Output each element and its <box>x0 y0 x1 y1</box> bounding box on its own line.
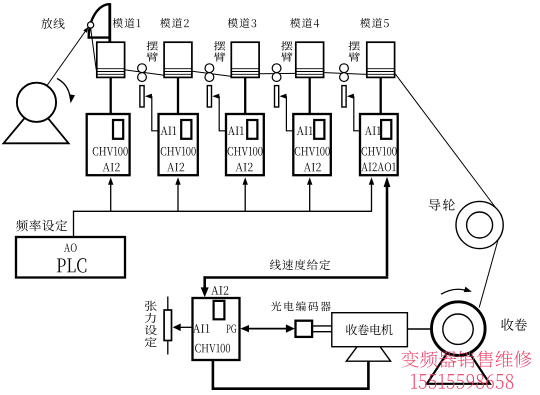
take-up inverter box <box>193 298 240 360</box>
wire AI1 to pot <box>177 326 193 328</box>
swing arm 3 pulleys <box>272 64 281 73</box>
wire swing arm 2 to AI1 <box>219 96 226 131</box>
tension pot stem <box>167 297 169 355</box>
pay-off rotation arrow <box>57 79 70 96</box>
wire PLC to bus <box>73 211 75 237</box>
AI1 label U4 <box>297 127 313 135</box>
die drum 4 <box>296 42 324 77</box>
wire U5 AO1 line-speed reference <box>386 186 389 276</box>
swing arm 4 arrow to bar <box>349 95 354 97</box>
模道5 label <box>360 18 389 28</box>
wire swing arm 1 to AI1 <box>152 96 159 131</box>
AI2 label takeup <box>211 286 228 295</box>
模道4 label <box>290 18 319 28</box>
take-up rotation arrow <box>441 289 465 294</box>
wire swing arm 3 to AI1 <box>286 96 293 131</box>
AI2AO1 label U5 <box>361 163 396 172</box>
收卷电机 label <box>346 324 393 335</box>
pay-off stand triangle <box>4 104 69 143</box>
模道2 label <box>160 18 189 28</box>
CHV100 label U3 <box>228 147 263 156</box>
CHV100 label U4 <box>295 147 330 156</box>
guide D-shape arc <box>89 4 110 37</box>
die drum 5 <box>367 42 395 77</box>
swing arm 3 sensor bar <box>275 86 279 107</box>
PG label takeup <box>226 325 236 333</box>
张力设定 label <box>145 301 157 347</box>
wire between dies <box>259 72 295 74</box>
tension pot body <box>164 310 171 341</box>
encoder box <box>296 321 313 337</box>
频率设定 label <box>16 220 67 232</box>
wire between dies <box>325 73 367 75</box>
wire motor to take-up wheel <box>407 328 431 330</box>
wire die5 to guide wheel <box>395 74 502 216</box>
shaft die2 to inverter <box>177 77 179 113</box>
swing arm 3 arrow to bar <box>281 95 286 97</box>
die drum 3 <box>231 42 259 77</box>
encoder shaft <box>312 325 331 327</box>
swing arm 2 sensor bar <box>207 86 211 107</box>
CHV100 label U5 <box>362 147 397 156</box>
导轮 label <box>429 199 455 211</box>
光电编码器 label <box>271 301 331 311</box>
PG feedback double arrow <box>243 328 292 330</box>
PLC box <box>16 237 125 278</box>
inverter U3 terminal <box>247 120 257 139</box>
inverter U5 box <box>360 114 398 175</box>
inverter U1 terminal <box>113 120 123 139</box>
摆臂 label 2 <box>214 41 226 62</box>
AI1 label U2 <box>161 127 177 135</box>
take-up motor stand <box>346 347 390 362</box>
take-up stand <box>427 336 490 384</box>
shaft die4 to inverter <box>309 77 311 113</box>
AI2 label U2 <box>167 163 184 172</box>
bus branch arrow to U3 AI2 <box>244 184 246 212</box>
die drum 1 <box>97 42 125 77</box>
摆臂 label 3 <box>281 41 293 62</box>
take-up wheel <box>432 302 486 356</box>
CHV100 label takeup <box>195 344 230 353</box>
swing arm 1 arrow to bar <box>147 95 152 97</box>
AI1 label U5 <box>365 127 381 135</box>
watermark line1 <box>401 350 531 367</box>
wire swing arm 4 to AI1 <box>354 96 360 131</box>
watermark line2 <box>411 374 513 389</box>
die drum 2 <box>164 42 192 77</box>
pulley circle <box>88 22 94 28</box>
swing arm 2 arrow to bar <box>214 95 219 97</box>
pay-off reel circle <box>17 83 56 122</box>
swing arm 4 pulleys <box>340 64 349 73</box>
inverter U1 box <box>87 114 130 175</box>
shaft die1 to inverter <box>110 77 112 113</box>
wire pay-off to pulley <box>47 28 88 86</box>
wire guide wheel to take-up <box>479 226 502 308</box>
bus branch arrow to U4 AI2 <box>309 184 311 212</box>
模道1 label <box>113 18 141 28</box>
AI2 label U4 <box>304 163 321 172</box>
AI1 label U3 <box>228 127 244 135</box>
AI2 label U3 <box>235 163 252 172</box>
frequency bus wire <box>73 210 372 212</box>
inverter U4 box <box>293 114 331 175</box>
swing arm 1 sensor bar <box>140 86 144 107</box>
swing arm 1 pulleys <box>138 64 147 73</box>
inverter U3 box <box>226 114 264 175</box>
inverter U2 terminal <box>181 120 191 139</box>
inverter U2 box <box>159 114 198 175</box>
CHV100 label U1 <box>93 147 128 156</box>
swing arm 4 sensor bar <box>342 86 346 107</box>
CHV100 label U2 <box>161 147 196 156</box>
摆臂 label 1 <box>146 41 158 62</box>
take-up motor box <box>332 313 408 347</box>
inverter U5 terminal <box>381 120 391 139</box>
AI1 label takeup <box>193 324 210 332</box>
放线 label text <box>41 18 64 29</box>
收卷 label <box>501 319 527 331</box>
wire between dies <box>125 70 165 75</box>
swing arm 2 pulleys <box>205 64 214 73</box>
guide vertical bar <box>108 3 111 42</box>
take-up inverter terminal <box>214 301 225 319</box>
shaft die5 to inverter <box>380 77 382 113</box>
bus branch arrow to U2 AI2 <box>177 184 179 212</box>
wire pulley to die1 <box>91 27 97 70</box>
motor drive loop wire <box>213 360 369 389</box>
guide wheel <box>456 201 503 248</box>
wire between dies <box>192 71 231 76</box>
摆臂 label 4 <box>348 41 360 62</box>
bus branch arrow to U1 AI2 <box>110 184 112 212</box>
PLC label <box>57 258 87 272</box>
线速度给定 label <box>270 259 330 270</box>
AO label <box>64 244 77 252</box>
shaft die3 to inverter <box>244 77 246 113</box>
AI2 label U1 <box>103 163 120 172</box>
模道3 label <box>228 18 257 28</box>
inverter U4 terminal <box>314 120 324 139</box>
bus branch arrow to U5 AI2 <box>371 184 373 212</box>
